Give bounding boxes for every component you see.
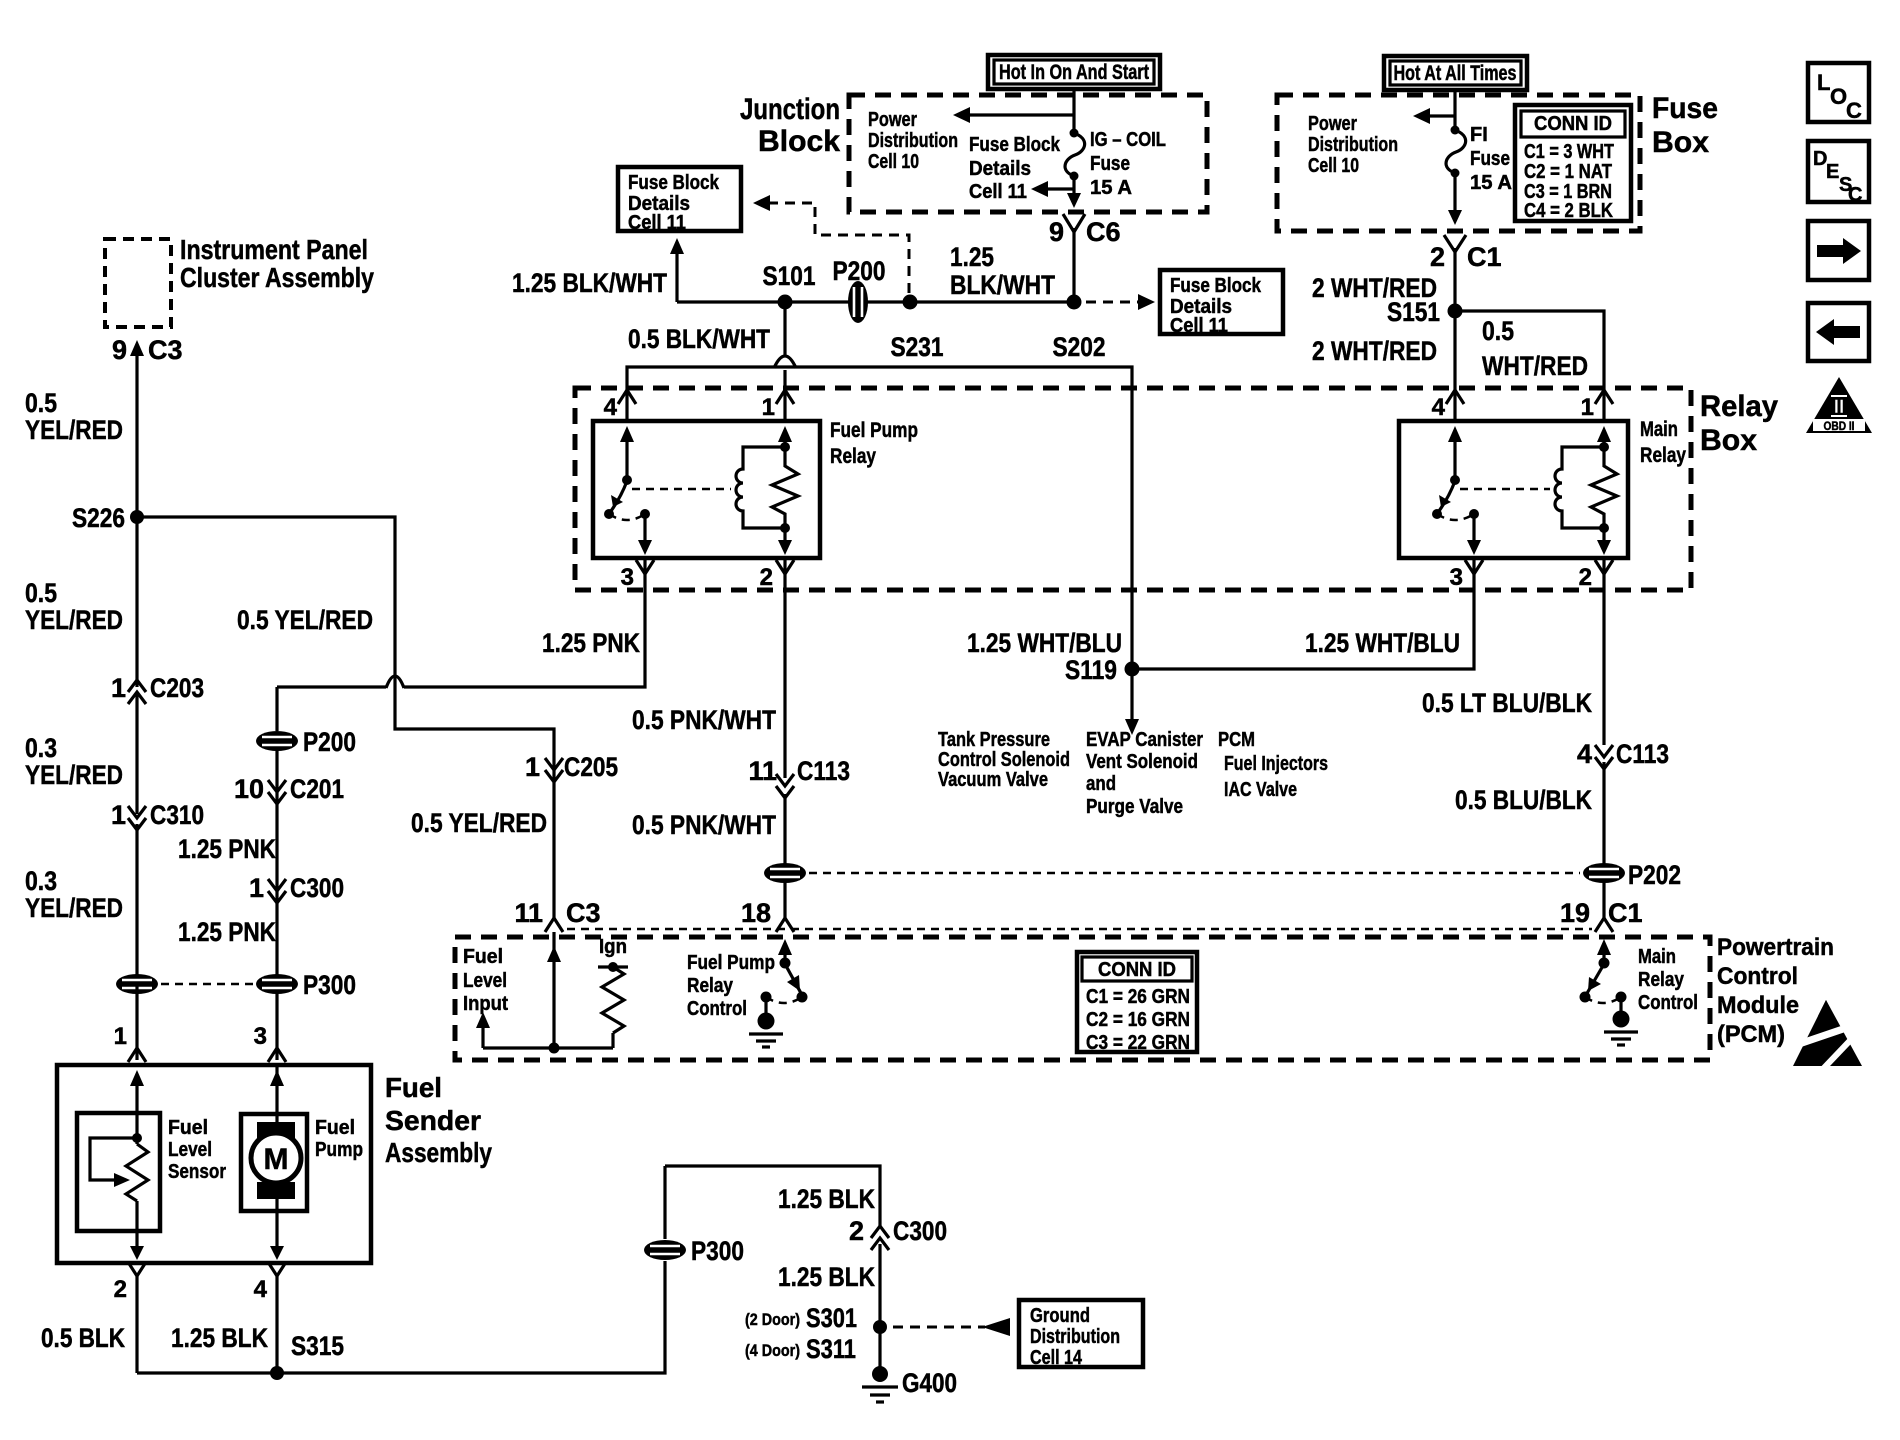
svg-text:Fuel: Fuel [168,1117,208,1139]
svg-text:18: 18 [741,898,771,928]
svg-text:Block: Block [758,125,840,158]
splice S101 [778,295,793,310]
svg-text:CONN ID: CONN ID [1098,959,1176,981]
dashed link grommet to P202 [809,872,1580,875]
svg-text:1: 1 [762,394,775,421]
fuel level sensor box [77,1113,160,1231]
wire from hot box into junction block [1072,89,1075,133]
svg-text:L: L [1817,70,1830,95]
fuse FI 15A [1451,126,1460,135]
svg-text:C203: C203 [150,673,204,703]
svg-text:1: 1 [249,873,264,903]
svg-text:Power: Power [868,109,917,131]
svg-text:Purge Valve: Purge Valve [1086,796,1183,818]
conn id table (PCM) [1077,952,1197,1052]
wire 2 WHT/RED (S151 to main relay pin 4) [1453,311,1456,421]
wire 1.25 BLK (pin 4 down) [275,1274,278,1373]
svg-text:1.25 WHT/BLU: 1.25 WHT/BLU [967,628,1122,658]
arrow down to connector C1 [1453,173,1456,211]
svg-text:S301: S301 [806,1303,857,1333]
connector C201 pin 10 [268,780,286,804]
svg-text:2: 2 [849,1216,864,1246]
ground (main relay control) [1619,997,1622,1011]
svg-text:1.25 BLK/WHT: 1.25 BLK/WHT [512,268,667,298]
svg-text:0.5 BLK: 0.5 BLK [41,1323,125,1353]
splice S119 [1125,662,1140,677]
dashed connector face line [567,928,1592,931]
arrow S119 down [1130,676,1133,721]
connector C3 pin 11 (PCM) [545,918,563,932]
svg-text:Vent Solenoid: Vent Solenoid [1086,751,1198,773]
svg-text:Cell 11: Cell 11 [969,181,1027,203]
svg-text:S119: S119 [1065,655,1117,685]
connector C3 pin 9 (arrow up) [130,340,144,356]
arrow to fuse block details cell 11 [1044,187,1074,190]
svg-text:Distribution: Distribution [868,130,958,152]
svg-text:YEL/RED: YEL/RED [25,760,123,790]
svg-text:WHT/RED: WHT/RED [1482,351,1588,381]
svg-text:(2 Door): (2 Door) [745,1310,800,1329]
ground distribution cell 14 box [1019,1300,1143,1367]
svg-text:C6: C6 [1086,217,1121,247]
svg-text:Main: Main [1640,418,1678,441]
svg-text:IAC Valve: IAC Valve [1224,779,1297,801]
svg-text:Control Solenoid: Control Solenoid [938,749,1070,771]
fuel pump relay pin 2 connector [776,560,794,574]
wire 0.5 BLU/BLK (C113 to PCM pin 19) [1602,762,1605,918]
svg-text:2: 2 [1579,564,1592,591]
splice S315 [270,1366,284,1380]
connector C113 pin 4 [1595,745,1613,769]
svg-text:FI: FI [1470,124,1488,146]
fuel pump relay pin 4 connector [618,390,636,404]
connector C300 pin 1 [268,879,286,903]
connector C205 pin 1 [545,758,563,782]
svg-text:Fuel Pump: Fuel Pump [830,419,918,442]
wire 1.25 BLK (C300 to S301) [878,1244,881,1368]
svg-text:Input: Input [463,993,508,1015]
svg-text:0.5 BLK/WHT: 0.5 BLK/WHT [628,324,770,354]
svg-text:Fuse: Fuse [1090,153,1130,175]
svg-text:Fuel: Fuel [315,1117,355,1139]
svg-text:Assembly: Assembly [385,1137,492,1168]
svg-text:Vacuum Valve: Vacuum Valve [938,769,1048,791]
svg-text:3: 3 [254,1023,267,1050]
svg-text:C113: C113 [1616,739,1669,769]
svg-text:C300: C300 [893,1216,947,1246]
svg-text:Pump: Pump [315,1139,363,1161]
grommet P202 [1583,863,1625,883]
fuse block details cell 11 box (right) [1160,270,1283,334]
svg-text:C1 = 3 WHT: C1 = 3 WHT [1524,141,1614,163]
svg-text:1.25 BLK: 1.25 BLK [778,1184,875,1214]
wire (C3 pin 11 into PCM) [552,932,555,1048]
svg-text:P200: P200 [303,727,356,757]
wire 0.5 LT BLU/BLK (main relay pin 2 to C113) [1602,558,1605,745]
svg-text:4: 4 [1577,739,1592,769]
splice S202 [1067,295,1082,310]
main relay control switch [1597,939,1611,955]
connector C6 pin 9 [1063,214,1085,232]
svg-text:EVAP Canister: EVAP Canister [1086,729,1203,751]
svg-text:1.25: 1.25 [950,242,994,272]
grommet P200 (column) [256,731,298,751]
svg-text:Ign: Ign [599,936,627,958]
svg-text:C310: C310 [150,800,204,830]
svg-text:0.5 YEL/RED: 0.5 YEL/RED [411,808,547,838]
relay box dashed box [575,388,1691,590]
svg-text:C300: C300 [290,873,344,903]
icon LOC [1808,63,1869,122]
wire 0.5 PNK/WHT (fuel pump relay pin 2 to C113) [783,558,786,778]
instrument panel cluster assembly box [105,239,171,327]
splice S151 [1448,304,1463,319]
svg-text:C2 = 1 NAT: C2 = 1 NAT [1524,161,1612,183]
svg-text:C3 = 22 GRN: C3 = 22 GRN [1086,1032,1190,1054]
svg-text:4: 4 [1432,394,1446,421]
svg-text:(4 Door): (4 Door) [745,1341,800,1360]
svg-text:Box: Box [1652,126,1709,159]
wire from hot at all times into fuse box [1453,90,1456,130]
arrow down to connector C6 [1072,176,1075,194]
svg-text:1.25 BLK: 1.25 BLK [171,1323,268,1353]
svg-text:0.5 BLU/BLK: 0.5 BLU/BLK [1455,785,1592,815]
splice S226 [130,510,144,524]
svg-text:Fuse Block: Fuse Block [628,172,720,194]
fuel pump relay coil [736,447,785,528]
svg-text:Power: Power [1308,113,1357,135]
svg-text:C3: C3 [566,898,601,928]
wire 0.5 YEL/RED branch to C205 [137,517,554,918]
connector C113 pin 11 [776,774,794,798]
svg-text:3: 3 [1450,564,1463,591]
dashed link grommet to P300 [161,983,253,986]
svg-text:Tank Pressure: Tank Pressure [938,729,1050,751]
main relay pin 3 connector [1465,560,1483,574]
dashed reference S231 to fuse block details [768,203,909,294]
svg-text:Level: Level [463,970,507,992]
grommet P300 [256,974,298,994]
splice S231 [903,295,918,310]
svg-text:C3: C3 [148,335,183,365]
svg-text:11: 11 [514,898,543,928]
svg-text:Details: Details [969,158,1031,180]
pin 1 connector of fuel sender [128,1048,146,1062]
svg-text:O: O [1830,84,1847,109]
svg-text:P300: P300 [303,970,356,1000]
svg-text:S231: S231 [891,332,944,362]
wire 1.25 BLK/WHT (C6 to S202) [1072,228,1075,302]
svg-text:Fuse: Fuse [1470,148,1510,170]
svg-text:Relay: Relay [687,975,734,997]
svg-text:2: 2 [114,1276,127,1303]
connector pin 18 (PCM) [776,918,794,932]
svg-text:0.3: 0.3 [25,866,57,896]
svg-text:PCM: PCM [1218,729,1255,751]
svg-text:G400: G400 [902,1368,957,1398]
icon arrow right [1808,221,1869,280]
svg-text:1.25 PNK: 1.25 PNK [178,917,276,947]
pin 2 connector of fuel sender [128,1262,146,1276]
fuel pump relay pin 1 connector [776,390,794,404]
wire 0.5 YEL/RED (C3 to S226) [135,352,138,517]
svg-text:2 WHT/RED: 2 WHT/RED [1312,336,1437,366]
ground G400 [872,1366,888,1382]
svg-text:II: II [1834,397,1845,418]
main relay pin 4 connector [1446,390,1464,404]
fuel level sensor internal arrow up [130,1070,144,1086]
fuel level sensor resistor [126,1144,148,1201]
svg-text:0.5 YEL/RED: 0.5 YEL/RED [237,605,373,635]
connector C300 pin 2 [871,1226,889,1250]
wire 0.5 WHT/RED (S151 to main relay pin 1) [1455,311,1604,421]
svg-text:Hot In On And Start: Hot In On And Start [999,61,1149,84]
pin 4 connector of fuel sender [268,1262,286,1276]
svg-text:Distribution: Distribution [1308,134,1398,156]
svg-text:0.5: 0.5 [25,388,57,418]
wire 0.5 YEL/RED (S226 to C203) [135,517,138,687]
main relay pin 1 connector [1595,390,1613,404]
svg-text:C: C [1848,184,1862,206]
main relay pin 2 connector [1595,560,1613,574]
svg-text:0.5 LT BLU/BLK: 0.5 LT BLU/BLK [1422,688,1592,718]
dashed arrow S202 to fuse block details [1086,301,1138,304]
icon DESC [1808,141,1869,202]
svg-text:S315: S315 [291,1331,344,1361]
fuse box dashed box [1277,95,1640,231]
svg-text:E: E [1826,161,1839,183]
svg-text:CONN ID: CONN ID [1534,113,1612,135]
svg-text:1: 1 [111,673,126,703]
wire 0.5 PNK/WHT (C113 to PCM pin 18) [783,794,786,918]
grommet (on pin 18 wire) [764,863,806,883]
svg-text:2: 2 [1430,242,1445,272]
grommet (unlabeled, left) [116,974,158,994]
svg-text:4: 4 [254,1276,268,1303]
svg-text:Relay: Relay [1700,390,1778,423]
svg-text:P300: P300 [691,1236,744,1266]
icon OBD II triangle [1806,377,1872,433]
svg-text:YEL/RED: YEL/RED [25,893,123,923]
svg-text:S226: S226 [72,503,125,533]
hot in on and start box [988,55,1160,89]
svg-text:1: 1 [1581,394,1594,421]
svg-text:1.25 WHT/BLU: 1.25 WHT/BLU [1305,628,1460,658]
connector C203 pin 1 [128,680,146,704]
svg-text:S202: S202 [1053,332,1106,362]
svg-text:C4 = 2 BLK: C4 = 2 BLK [1524,200,1613,222]
fuel level input arrow [476,1012,490,1028]
svg-text:Control: Control [1638,992,1698,1014]
svg-text:Fuse Block: Fuse Block [969,134,1061,156]
fuel level sensor wiper [132,1133,142,1143]
main relay box [1399,421,1628,558]
svg-text:C: C [1846,98,1862,123]
svg-text:(PCM): (PCM) [1717,1021,1785,1048]
wire (grommet to sender pin 1) [135,984,138,1060]
svg-text:C201: C201 [290,774,344,804]
wire 2 WHT/RED (C1 to S151) [1453,248,1456,311]
svg-text:Box: Box [1700,424,1757,457]
svg-text:19: 19 [1560,898,1590,928]
svg-text:11: 11 [748,756,777,786]
svg-text:Control: Control [1717,963,1798,990]
svg-text:0.5: 0.5 [1482,316,1514,346]
svg-text:OBD II: OBD II [1824,419,1855,433]
wire 1.25 PNK (relay pin3 to P200 to sender pin 3) [404,558,645,687]
wire 1.25 WHT/BLU (fuel pump relay pin 4 to S119) [627,367,1132,669]
svg-text:Ground: Ground [1030,1305,1090,1327]
svg-text:4: 4 [604,394,618,421]
svg-text:1.25 PNK: 1.25 PNK [178,834,276,864]
svg-text:YEL/RED: YEL/RED [25,605,123,635]
svg-text:Fuel Injectors: Fuel Injectors [1224,753,1328,775]
svg-text:Distribution: Distribution [1030,1326,1120,1348]
svg-text:2: 2 [760,564,773,591]
fuel pump relay pin 3 connector [636,560,654,574]
svg-text:C1 = 26 GRN: C1 = 26 GRN [1086,986,1190,1008]
svg-text:Fuse Block: Fuse Block [1170,275,1262,297]
svg-text:1: 1 [114,1023,127,1050]
svg-text:Cell 10: Cell 10 [868,151,919,173]
ground (fuel pump relay control) [764,997,767,1013]
svg-text:Relay: Relay [1640,444,1686,467]
svg-text:Relay: Relay [1638,969,1685,991]
splice S301/S311 [873,1320,887,1334]
svg-text:15 A: 15 A [1470,172,1512,194]
svg-text:Cell 10: Cell 10 [1308,155,1359,177]
svg-text:Fuel: Fuel [463,946,503,968]
icon arrow left [1808,303,1869,361]
wire 0.3 YEL/RED (C203 to C310) [135,692,138,814]
connector C1 pin 19 (PCM) [1595,918,1613,932]
connector C1 pin 2 [1444,235,1466,252]
main relay coil [1555,447,1604,528]
main relay switch [1448,426,1462,442]
connector C310 pin 1 [128,806,146,830]
svg-text:S311: S311 [806,1334,856,1364]
pin 3 connector of fuel sender [268,1048,286,1062]
svg-text:3: 3 [621,564,634,591]
svg-text:1: 1 [525,752,540,782]
svg-text:Cell 14: Cell 14 [1030,1347,1083,1369]
svg-text:0.3: 0.3 [25,733,57,763]
wire 0.5 BLK/WHT (S101 to relay pin 1) [783,302,786,356]
svg-text:Cluster Assembly: Cluster Assembly [180,262,374,293]
svg-text:P200: P200 [833,256,886,286]
svg-text:IG – COIL: IG – COIL [1090,129,1166,151]
svg-text:C2 = 16 GRN: C2 = 16 GRN [1086,1009,1190,1031]
fuel pump motor [275,1065,278,1130]
svg-text:0.5 PNK/WHT: 0.5 PNK/WHT [632,810,776,840]
svg-text:1.25 BLK: 1.25 BLK [778,1262,875,1292]
svg-text:Fuel: Fuel [385,1072,442,1103]
svg-text:Cell 11: Cell 11 [628,212,686,234]
svg-text:C113: C113 [797,756,850,786]
main relay resistor [1597,426,1611,442]
svg-text:and: and [1086,773,1116,795]
svg-text:0.5: 0.5 [25,578,57,608]
svg-text:15 A: 15 A [1090,177,1132,199]
svg-text:10: 10 [234,774,264,804]
svg-text:Sensor: Sensor [168,1161,226,1183]
fuse block details cell 11 box (left) [618,167,741,231]
svg-text:1: 1 [111,800,126,830]
svg-text:Relay: Relay [830,445,876,468]
conn id table (fuse box) [1515,105,1631,221]
wire 1.25 WHT/BLU (S119 to main relay pin 3) [1132,558,1474,669]
svg-text:C205: C205 [564,752,618,782]
svg-text:P202: P202 [1628,860,1681,890]
svg-text:YEL/RED: YEL/RED [25,415,123,445]
wire ground run (S315 to P300 to C300) [137,1261,665,1373]
arrow to power distribution cell 10 [966,113,1074,116]
svg-text:C1: C1 [1467,242,1502,272]
svg-text:9: 9 [1049,217,1064,247]
svg-text:Sender: Sender [385,1105,481,1136]
svg-text:Control: Control [687,998,747,1020]
svg-text:Main: Main [1638,946,1676,968]
fuel pump relay box [593,421,820,558]
svg-text:Fuse: Fuse [1652,92,1718,125]
wire 0.3 YEL/RED (C310 to grommet) [135,824,138,984]
svg-text:Hot At All Times: Hot At All Times [1394,62,1517,85]
junction block dashed box [849,95,1207,212]
powertrain control module dashed box [455,937,1710,1060]
svg-text:M: M [264,1143,289,1176]
svg-text:S151: S151 [1387,297,1440,327]
svg-text:Fuel Pump: Fuel Pump [687,952,775,974]
fuel level sensor wire down arrow [135,1201,138,1248]
svg-text:Cell 11: Cell 11 [1170,315,1228,337]
svg-text:0.5 PNK/WHT: 0.5 PNK/WHT [632,705,776,735]
grommet P200 (firewall) [848,281,868,323]
svg-text:Junction: Junction [740,93,840,126]
wire 1.25 BLK/WHT (main run) [677,300,1074,303]
arrow to power distribution (fuse box) [1426,114,1455,117]
fuel pump relay control switch [778,939,792,955]
fuel pump relay switch [620,426,634,442]
fuel pump relay resistor [778,426,792,442]
wire 0.5 BLK (pin 2 down) [135,1274,138,1373]
svg-text:Module: Module [1717,992,1799,1019]
ESD symbol [1793,1000,1862,1066]
grommet P300 (floor) [644,1240,686,1260]
svg-text:Powertrain: Powertrain [1717,934,1834,961]
svg-text:Instrument Panel: Instrument Panel [180,234,368,265]
svg-text:BLK/WHT: BLK/WHT [950,270,1055,300]
fuse IG-COIL 15A [1070,129,1079,138]
svg-text:S101: S101 [763,261,816,291]
svg-text:C1: C1 [1608,898,1643,928]
hot at all times box [1384,56,1527,90]
dashed arrow to ground distribution [893,1326,985,1329]
fuel sender assembly box [57,1065,371,1263]
svg-text:Level: Level [168,1139,212,1161]
svg-text:9: 9 [112,335,127,365]
svg-text:1.25 PNK: 1.25 PNK [542,628,640,658]
